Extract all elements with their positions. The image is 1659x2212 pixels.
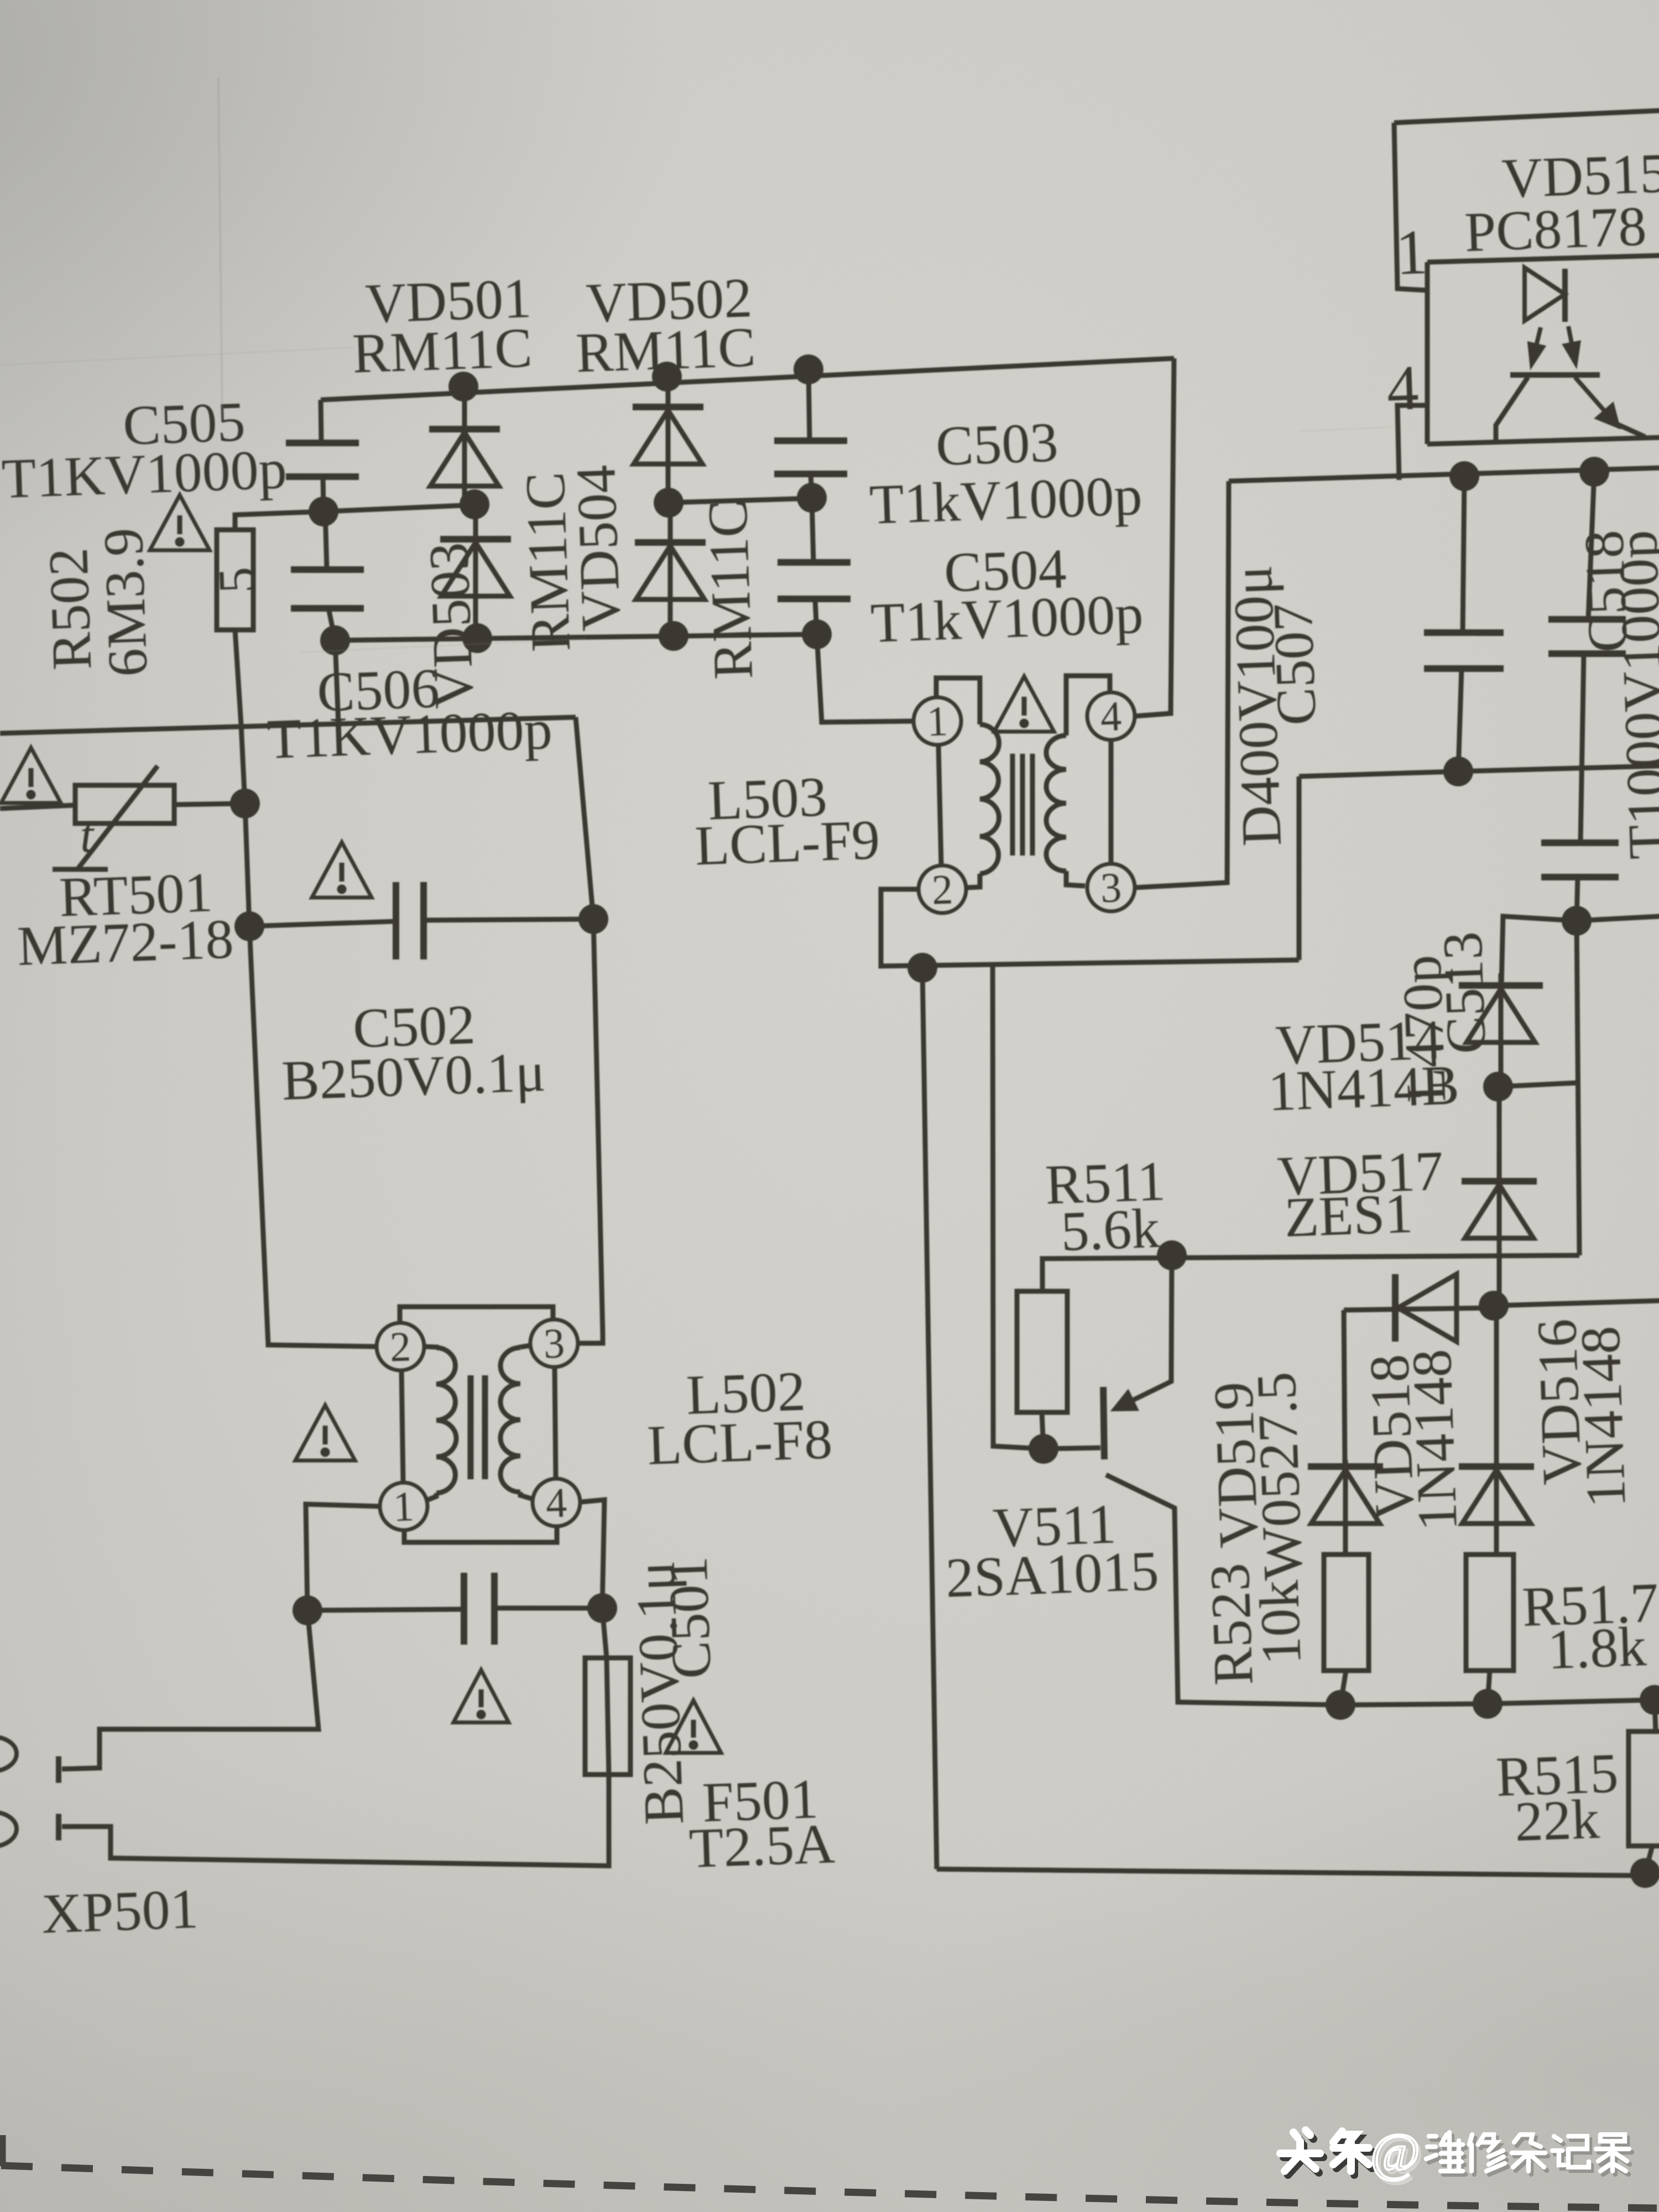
paper crease faint	[218, 77, 222, 420]
wire RT501 to junction J4	[174, 802, 245, 806]
svg-text:1: 1	[926, 698, 949, 745]
svg-text:T2.5A: T2.5A	[688, 1812, 836, 1880]
resistor R515	[1625, 1730, 1659, 1848]
L503 pin 4 circle	[1087, 692, 1136, 741]
wire C518 column top	[1583, 472, 1600, 619]
thermistor RT501 foot	[53, 867, 108, 871]
svg-text:4: 4	[545, 1479, 568, 1526]
XP501 top prong tick	[58, 1756, 59, 1783]
wire VD518 corner down to VD519	[1339, 1310, 1349, 1467]
svg-text:22k: 22k	[1514, 1788, 1600, 1853]
optocoupler light arrow 1	[1529, 327, 1543, 364]
wire J3 jog to R502	[234, 512, 324, 530]
wire VD515 pin4 stub	[1396, 404, 1430, 480]
svg-text:4: 4	[1100, 693, 1123, 740]
junction dot bridge bottom left	[320, 625, 351, 656]
wire J3 to C506	[325, 512, 327, 570]
wire L503 pin4 up to top corner	[1122, 358, 1187, 716]
capacitor C505	[285, 440, 360, 479]
wire TL corner down to C505	[320, 400, 322, 443]
capacitor C507	[1423, 630, 1505, 671]
L502 right winding bottom hook	[520, 1491, 531, 1499]
svg-text:1N414B: 1N414B	[1267, 1054, 1460, 1123]
fuse F501 body	[581, 1656, 635, 1776]
thermistor RT501 diagonal	[74, 766, 161, 869]
warning triangle near C501	[452, 1669, 509, 1724]
junction dot J3 C505-C506	[308, 496, 339, 527]
wire C513 rail to right edge	[1299, 764, 1659, 779]
wire J7 down to F501	[602, 1608, 607, 1658]
wire C506 horizontal rail	[0, 713, 576, 738]
wire C504 node to L503 pin1	[817, 631, 914, 724]
svg-text:XP501: XP501	[40, 1877, 199, 1945]
wire rail corner down to C502 node	[576, 717, 593, 919]
svg-text:1.8k: 1.8k	[1547, 1615, 1647, 1681]
wire J3 to VD501 mid	[324, 505, 474, 512]
capacitor C506	[290, 567, 366, 611]
wire VD515 pin1 drop	[1392, 122, 1427, 291]
wire L502 pin1 to J6	[304, 1501, 384, 1610]
svg-text:VD504: VD504	[565, 464, 633, 632]
svg-text:T1KV1000p: T1KV1000p	[266, 698, 553, 771]
wire long vertical from L503 pin2 node	[905, 969, 954, 1869]
L503 right winding top hook	[1064, 674, 1112, 735]
wire bridge bottom rail	[335, 624, 817, 651]
resistor R523	[1320, 1553, 1373, 1672]
L503 left winding bottom hook	[967, 874, 980, 888]
capacitor C518 upper	[1547, 617, 1627, 656]
resistor R517	[1462, 1553, 1518, 1672]
wire corner up to C513 rail	[1292, 776, 1305, 960]
junction dot VD501 top	[448, 371, 479, 402]
wire C502 left edge down to L502 pin2	[249, 922, 377, 1350]
wire C502 top edge left	[249, 921, 396, 926]
wire top-right rail y867	[1229, 466, 1659, 483]
L502 pin 2 circle	[376, 1322, 425, 1371]
svg-text:D400V100μ: D400V100μ	[1221, 564, 1293, 847]
svg-text:T1kV1000p: T1kV1000p	[870, 582, 1145, 654]
diode VD519 W05	[1308, 1459, 1386, 1556]
svg-text:B250V0.1μ: B250V0.1μ	[624, 1560, 696, 1826]
diode VD504 RM11C	[633, 502, 709, 637]
capacitor C504	[776, 560, 852, 601]
wire top rail VD501-VD502 row	[320, 358, 1174, 400]
wire C513 node left to VD514	[1499, 914, 1579, 985]
phototransistor emitter tail	[1616, 422, 1645, 438]
fuse F501 through line	[605, 1658, 611, 1775]
L502 pin 1 circle	[379, 1482, 429, 1531]
wire VD502 mid to C503 mid	[669, 498, 812, 503]
V511 base bar	[1102, 1387, 1105, 1459]
wire J4 down to C502 corner	[245, 804, 249, 926]
wire R515 bottom lead	[1644, 1846, 1653, 1873]
svg-text:4: 4	[1386, 352, 1420, 424]
L503 pin 3 circle	[1087, 863, 1136, 912]
svg-text:1: 1	[393, 1483, 415, 1530]
optocoupler LED triangle	[1523, 267, 1566, 321]
wire B R511 rail	[1041, 1240, 1580, 1291]
L502 core lines	[467, 1375, 488, 1480]
svg-text:1N4148: 1N4148	[1569, 1325, 1637, 1509]
svg-text:W0527.5: W0527.5	[1245, 1371, 1315, 1581]
wire F501 to XP501 bottom	[61, 1775, 612, 1885]
V511 collector lead	[1106, 1467, 1340, 1713]
svg-text:5: 5	[207, 566, 267, 594]
diode VD502 RM11C	[631, 375, 707, 504]
junction dot C503 top	[793, 354, 824, 385]
svg-text:2: 2	[931, 866, 954, 913]
svg-text:10k: 10k	[1248, 1579, 1313, 1666]
resistor R502	[213, 529, 257, 632]
phototransistor base bar	[1510, 372, 1600, 378]
wire J6 down to XP501 top	[57, 1610, 320, 1770]
wire C513 node to right edge	[1577, 916, 1659, 921]
capacitor C501	[461, 1572, 497, 1646]
phototransistor collector lead	[1494, 377, 1530, 443]
svg-text:PC8178: PC8178	[1464, 195, 1648, 263]
svg-text:LCL-F9: LCL-F9	[694, 808, 881, 878]
diode VD516 1N4148	[1453, 1305, 1537, 1556]
junction dot C502 right	[578, 904, 609, 935]
svg-text:3: 3	[543, 1320, 566, 1367]
wire base column from upper rail	[977, 959, 1100, 1451]
L503 left winding top hook	[936, 676, 982, 726]
wire bottom ground rail	[937, 1844, 1659, 1901]
wire left edge to RT501	[0, 805, 75, 808]
wire C503 column top	[807, 369, 811, 441]
warning triangle near C501 label	[664, 1699, 721, 1755]
V511 emitter arrow	[1114, 1381, 1172, 1410]
warning triangle in L503	[993, 675, 1054, 734]
L503 pin 2 circle	[918, 865, 967, 914]
L502 right winding	[496, 1348, 525, 1493]
junction dot C507 bottom	[1443, 756, 1474, 787]
junction top rail at C518	[1579, 456, 1610, 487]
wire C504 to bottom node	[815, 599, 817, 634]
L502 right winding top hook	[520, 1345, 530, 1348]
resistor R511	[1013, 1290, 1071, 1414]
diode VD501 RM11C	[427, 385, 503, 505]
svg-text:1N4148: 1N4148	[1400, 1348, 1469, 1532]
L502 left winding top hook	[425, 1346, 436, 1348]
svg-text:1: 1	[1395, 217, 1429, 288]
svg-text:T1kV1000p: T1kV1000p	[869, 464, 1144, 536]
svg-text:@: @	[1370, 2123, 1420, 2183]
wire C507 column top	[1457, 476, 1470, 633]
optocoupler box left edge	[1421, 262, 1434, 444]
capacitor C518 lower	[1540, 840, 1620, 880]
L503 right lead pins 4-3	[1107, 740, 1115, 863]
wire C502 top edge right	[424, 914, 593, 925]
svg-text:MZ72-18: MZ72-18	[16, 907, 234, 978]
wire VD518 node to right edge	[1494, 1300, 1659, 1306]
svg-text:LCL-F8: LCL-F8	[646, 1408, 833, 1477]
L503 right winding	[1042, 735, 1071, 872]
junction dot C504 bottom	[801, 619, 832, 650]
optocoupler LED cathode bar	[1563, 269, 1567, 322]
svg-text:RM11C: RM11C	[575, 316, 757, 384]
svg-text:3: 3	[1100, 864, 1123, 911]
L502 pin 4 circle	[532, 1478, 581, 1527]
wire C506 to bridge bottom	[328, 608, 335, 641]
junction dot R515 bottom	[1630, 1858, 1659, 1888]
junction dot R517 bottom	[1472, 1688, 1503, 1719]
L502 right lead pins 3-4	[552, 1367, 559, 1479]
junction dot C502 corner	[234, 911, 265, 942]
thermistor RT501 body	[74, 782, 176, 827]
L503 core lines	[1009, 753, 1036, 857]
wire L503 pin2 to lower rail	[878, 875, 1299, 975]
wire C503 to mid node	[811, 474, 812, 498]
warning triangle near R502	[148, 494, 210, 552]
wire mid node to C504	[811, 498, 814, 562]
svg-text:5.6k: 5.6k	[1060, 1197, 1161, 1263]
junction dot VD502-VD504	[653, 487, 684, 518]
wire VD515 top rail	[1394, 111, 1659, 123]
junction dot VD504 bottom	[658, 620, 689, 651]
diode VD503 RM11C	[438, 503, 514, 639]
wire C505 to node J3	[322, 477, 324, 512]
wire bridge T down to C506 rail	[335, 640, 338, 724]
L503 pin 1 circle	[913, 696, 962, 745]
svg-text:2: 2	[389, 1323, 412, 1370]
svg-text:RM11C: RM11C	[351, 316, 533, 385]
XP501 bottom prong tick	[58, 1814, 59, 1840]
wire J6 to C501	[307, 1605, 464, 1615]
svg-text:2SA1015: 2SA1015	[945, 1540, 1160, 1609]
junction dot RT501 node	[229, 788, 260, 819]
L503 right winding bottom hook	[1066, 870, 1085, 886]
capacitor C502	[393, 881, 426, 960]
svg-text:ZES1: ZES1	[1284, 1182, 1414, 1249]
wire C518 column bottom	[1575, 877, 1579, 921]
junction dot C501 right	[587, 1593, 618, 1624]
svg-text:RM11C: RM11C	[696, 499, 765, 681]
svg-text:VD503: VD503	[418, 541, 486, 709]
wire R515 top lead	[1655, 1700, 1656, 1731]
junction top rail at C507	[1449, 461, 1480, 492]
L502 left winding bottom hook	[428, 1493, 437, 1500]
V511 emitter lead	[1118, 1256, 1177, 1405]
L502 top bracket	[399, 1301, 554, 1324]
optocoupler box bottom edge	[1427, 436, 1659, 445]
L503 left winding	[975, 724, 1004, 874]
junction dot VD518 right	[1478, 1290, 1509, 1321]
wire C502 node down to L502 pin3	[565, 919, 608, 1344]
junction dot C501 left	[292, 1595, 323, 1626]
svg-text:6M3.9: 6M3.9	[92, 527, 159, 678]
wire R523 to bottom rail	[1339, 1671, 1347, 1705]
warning triangle near RT501	[0, 747, 61, 805]
junction dot VD503 bottom	[462, 623, 493, 654]
watermark toutiao	[1284, 2134, 1372, 2175]
svg-text:T1KV1000p: T1KV1000p	[1, 438, 288, 510]
junction dot VD502 top	[651, 361, 682, 392]
capacitor C503	[773, 438, 848, 476]
L502 pin 3 circle	[529, 1319, 578, 1368]
XP501 bottom prong	[0, 1812, 17, 1848]
junction dot R515 top	[1639, 1684, 1659, 1715]
wire bottom resistor rail	[1340, 1694, 1659, 1711]
wire R502 down to RT junction	[235, 630, 245, 804]
wire VD514 node right	[1498, 1083, 1578, 1087]
junction dot R523 bottom	[1325, 1689, 1356, 1720]
junction dot L503 pin2 rail	[907, 952, 938, 983]
wire J7 up to L502 pin4	[582, 1500, 608, 1609]
L502 left winding	[431, 1347, 460, 1493]
svg-text:B250V0.1μ: B250V0.1μ	[281, 1041, 547, 1113]
phototransistor emitter arrow	[1575, 375, 1618, 427]
diode VD514 1N414B	[1458, 972, 1546, 1088]
wire L503 pin3 right and up	[1121, 481, 1243, 888]
XP501 top prong	[0, 1736, 17, 1772]
junction dot VD514 bottom	[1483, 1071, 1514, 1102]
junction dot C503-C504	[796, 482, 827, 513]
wire C518 middle	[1574, 654, 1590, 843]
dashed page border bottom	[1, 2166, 1657, 2208]
junction dot R511 top right	[1156, 1240, 1187, 1271]
diode VD517 ZES1	[1458, 1086, 1541, 1307]
optocoupler box top edge	[1427, 254, 1659, 263]
L502 left lead pins 2-1	[399, 1370, 405, 1483]
wire C501 to J7	[494, 1604, 602, 1612]
diode VD518 1N4148	[1343, 1271, 1495, 1345]
junction dot C518 bottom	[1561, 905, 1592, 936]
wire right vertical to wireB corner	[1568, 921, 1588, 1255]
warning triangle near C502	[310, 841, 372, 900]
wire C507 column bottom	[1454, 669, 1465, 771]
junction dot V511 base	[1028, 1433, 1059, 1464]
L503 left lead pins 1-2	[937, 745, 942, 865]
wire R511 bottom to base node	[1042, 1412, 1044, 1449]
optocoupler light arrow 2	[1564, 326, 1579, 363]
junction dot VD501-VD503	[459, 489, 490, 520]
L502 bottom bracket	[404, 1525, 557, 1547]
wire R517 to bottom rail	[1486, 1671, 1491, 1704]
warning triangle near L502	[294, 1404, 355, 1463]
